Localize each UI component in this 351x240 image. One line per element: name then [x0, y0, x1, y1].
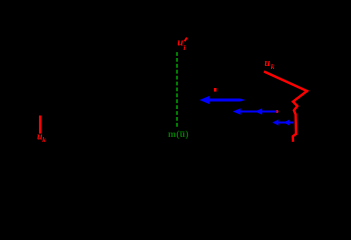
svg-text:k: k	[42, 136, 46, 142]
svg-text:k: k	[271, 62, 275, 71]
svg-text:m(u̅): m(u̅)	[168, 129, 189, 140]
svg-text:u: u	[264, 58, 270, 69]
